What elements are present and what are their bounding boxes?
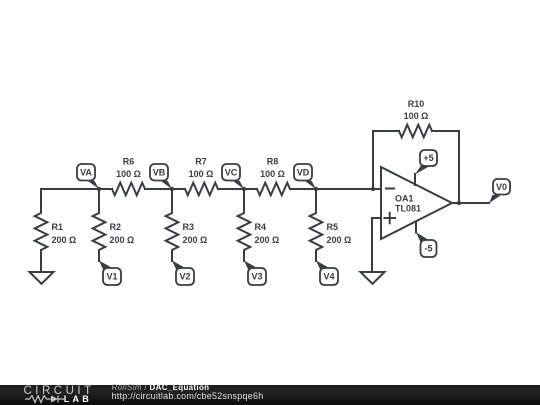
wire feedback left vertical xyxy=(373,131,399,189)
svg-text:R3: R3 xyxy=(183,222,195,232)
svg-text:100 Ω: 100 Ω xyxy=(404,111,429,121)
node V4 xyxy=(316,261,338,286)
svg-text:200 Ω: 200 Ω xyxy=(183,235,208,245)
svg-text:TL081: TL081 xyxy=(395,204,421,214)
wire R1 to ground xyxy=(40,250,42,272)
svg-text:100 Ω: 100 Ω xyxy=(189,169,214,179)
resistor R8 xyxy=(257,157,290,196)
logo resistor squiggle and diode xyxy=(25,396,64,403)
svg-text:100 Ω: 100 Ω xyxy=(116,169,141,179)
node V1 xyxy=(99,261,121,286)
resistor R2 xyxy=(93,189,135,261)
wire VC segment xyxy=(218,188,257,190)
svg-text:R6: R6 xyxy=(123,157,135,167)
resistor R1 xyxy=(35,189,77,261)
resistor R3 xyxy=(166,189,208,261)
svg-text:V0: V0 xyxy=(496,182,507,192)
node V2 xyxy=(172,261,194,286)
wire op-amp output xyxy=(452,202,489,204)
svg-text:VD: VD xyxy=(297,167,310,177)
resistor R4 xyxy=(238,189,280,261)
wire op-amp + input to ground xyxy=(372,218,381,272)
svg-text:-5: -5 xyxy=(424,244,432,254)
svg-text:200 Ω: 200 Ω xyxy=(327,235,352,245)
svg-text:100 Ω: 100 Ω xyxy=(260,169,285,179)
svg-text:V4: V4 xyxy=(323,272,334,282)
svg-text:V3: V3 xyxy=(251,272,262,282)
svg-text:R2: R2 xyxy=(110,222,122,232)
node VB xyxy=(150,164,174,191)
svg-text:R5: R5 xyxy=(327,222,339,232)
power flag +5 xyxy=(415,150,437,185)
footer bar xyxy=(0,385,540,405)
node VA xyxy=(77,164,101,191)
wire VD to op-amp inverting input xyxy=(290,188,381,190)
node V0 xyxy=(489,179,510,203)
resistor R10 xyxy=(399,99,432,137)
CircuitLab logo text LAB xyxy=(64,395,92,403)
node V3 xyxy=(244,261,266,286)
svg-text:200 Ω: 200 Ω xyxy=(255,235,280,245)
svg-text:R10: R10 xyxy=(408,99,425,109)
node VD xyxy=(294,164,318,191)
svg-text:OA1: OA1 xyxy=(395,194,414,204)
ground (left, under R1) xyxy=(30,272,54,284)
resistor R6 xyxy=(112,157,145,196)
credits line 1 xyxy=(112,384,210,392)
svg-text:V2: V2 xyxy=(179,272,190,282)
svg-text:+5: +5 xyxy=(423,153,433,163)
svg-text:VB: VB xyxy=(153,167,166,177)
svg-text:V1: V1 xyxy=(106,272,117,282)
svg-text:R4: R4 xyxy=(255,222,267,232)
power flag -5 xyxy=(416,222,437,258)
credits line 2 xyxy=(112,392,264,401)
junction output/feedback xyxy=(457,201,461,205)
svg-text:200 Ω: 200 Ω xyxy=(52,235,77,245)
svg-text:VC: VC xyxy=(225,167,238,177)
node VC xyxy=(222,164,246,191)
junction feedback/input xyxy=(371,187,375,191)
CircuitLab logo text CIRCUIT xyxy=(24,385,95,397)
wire VB segment xyxy=(145,188,185,190)
resistor R7 xyxy=(185,157,218,196)
wire feedback right vertical xyxy=(432,131,459,203)
svg-text:200 Ω: 200 Ω xyxy=(110,235,135,245)
svg-text:R8: R8 xyxy=(267,157,279,167)
svg-text:R1: R1 xyxy=(52,222,64,232)
op-amp OA1 TL081 xyxy=(381,167,452,239)
ground (under op-amp + input) xyxy=(361,272,385,284)
wire main bus left segment xyxy=(41,188,112,190)
svg-text:VA: VA xyxy=(80,167,92,177)
svg-text:R7: R7 xyxy=(195,157,207,167)
resistor R5 xyxy=(310,189,352,261)
